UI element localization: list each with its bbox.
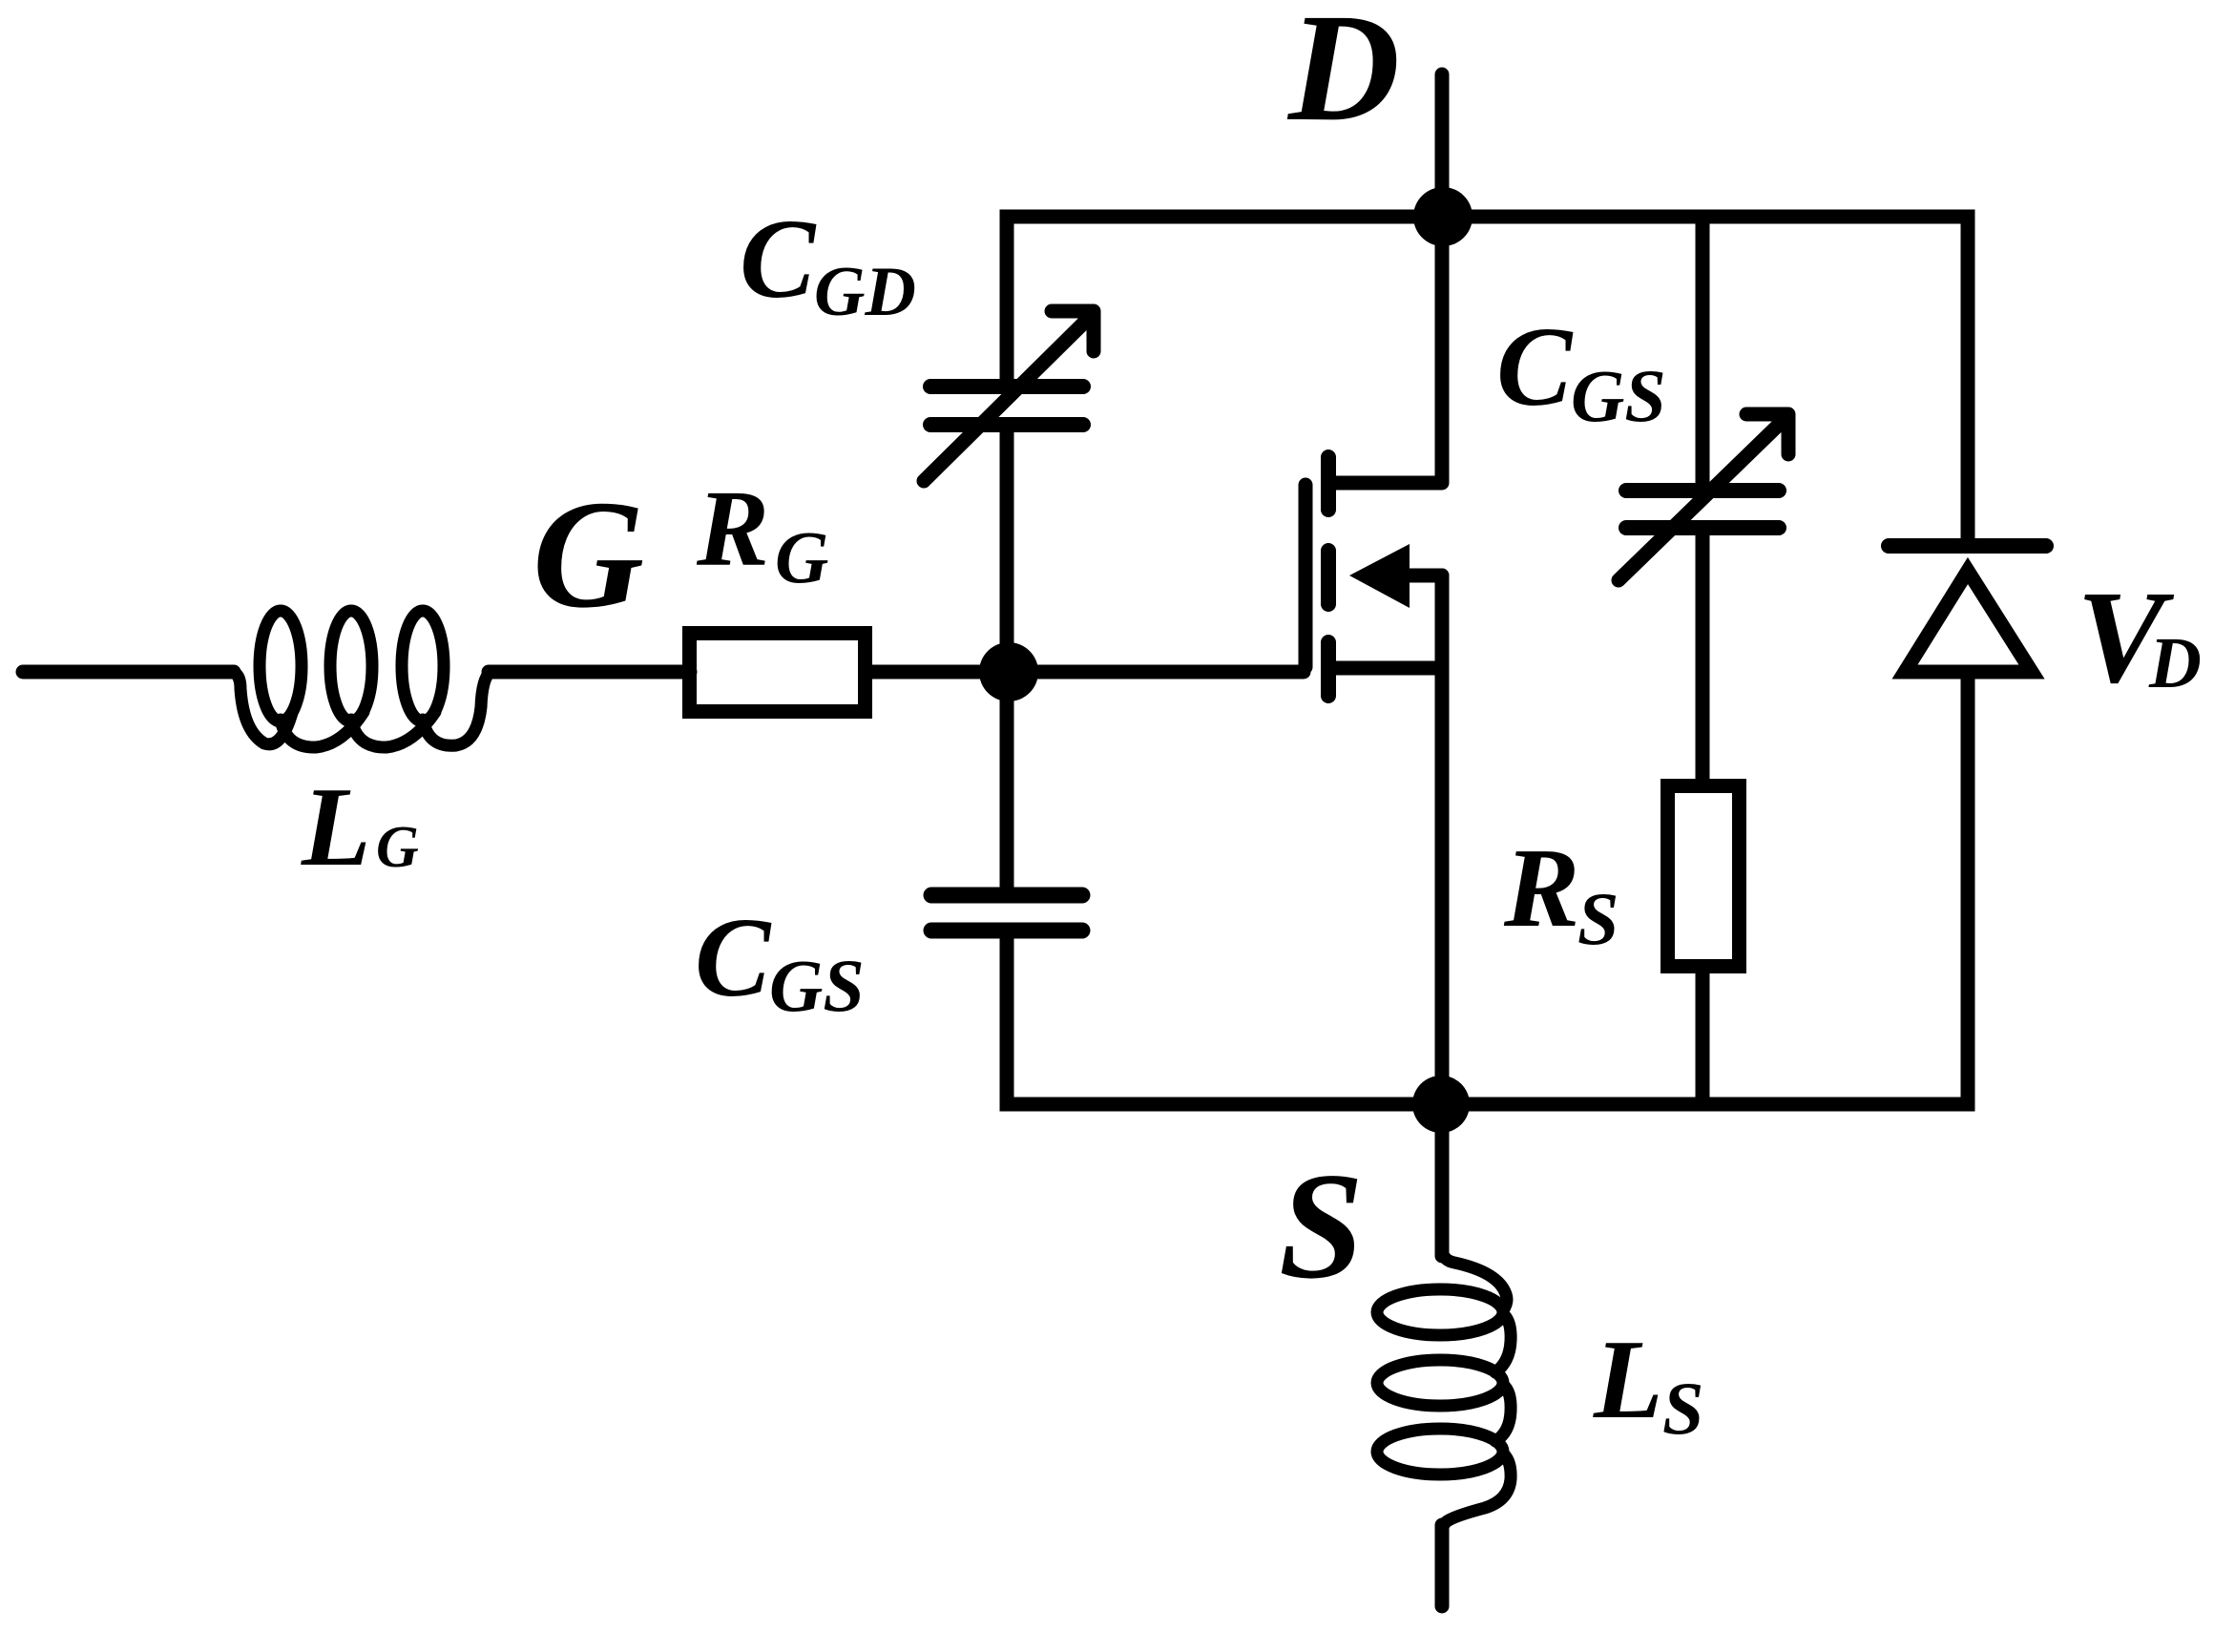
svg-text:GD: GD [814,253,916,331]
wire source down to S [1435,575,1450,1256]
svg-text:R: R [696,468,769,589]
wire gate [1009,665,1304,680]
svg-text:L: L [1593,1316,1663,1442]
transistor arrow head [1349,544,1410,608]
wire right branch top [1696,217,1710,484]
inductor LG [232,611,490,747]
wire LG to resistor RG [489,665,690,680]
svg-text:G: G [376,815,419,880]
svg-text:D: D [1286,0,1400,154]
svg-text:S: S [1279,1140,1364,1310]
transistor M1 [1305,457,1442,696]
wire top frame: left column top, top rail, diode column top [1007,217,1968,540]
svg-text:S: S [1662,1367,1703,1450]
wire RS to bottom rail [1696,966,1710,1104]
wire left column middle [1000,426,1014,889]
wire cap to resistor RS [1696,534,1710,786]
resistor RG [690,634,866,712]
svg-text:R: R [1503,825,1579,951]
capacitor CGS right plates [1626,491,1779,528]
inductor LS [1377,1251,1511,1531]
diode VD [1889,546,2046,672]
svg-text:C: C [1496,303,1574,429]
CGS right variable arrow [1619,414,1788,580]
capacitor CGD plates [930,387,1083,425]
resistor RS [1668,786,1740,967]
svg-text:GS: GS [1571,354,1666,437]
svg-text:L: L [301,763,371,889]
svg-text:C: C [695,894,772,1020]
wire bottom frame: left column bottom, bottom rail, diode column bottom [1007,678,1968,1104]
junction dot node S [1412,1076,1470,1133]
wire RG to node G [872,665,1007,680]
CGD variable arrow [924,311,1094,481]
svg-text:G: G [533,470,644,640]
svg-text:D: D [2148,623,2202,703]
wire S bottom terminal [1435,1525,1450,1606]
svg-text:S: S [1577,877,1619,960]
svg-text:C: C [740,196,817,322]
wire drain terminal D [1331,74,1442,483]
junction dot node D [1413,187,1473,246]
svg-text:G: G [775,515,828,598]
capacitor CGS left plates [931,895,1082,931]
svg-text:GS: GS [769,944,865,1027]
wire input left [23,665,234,680]
junction dot node G [979,642,1038,701]
